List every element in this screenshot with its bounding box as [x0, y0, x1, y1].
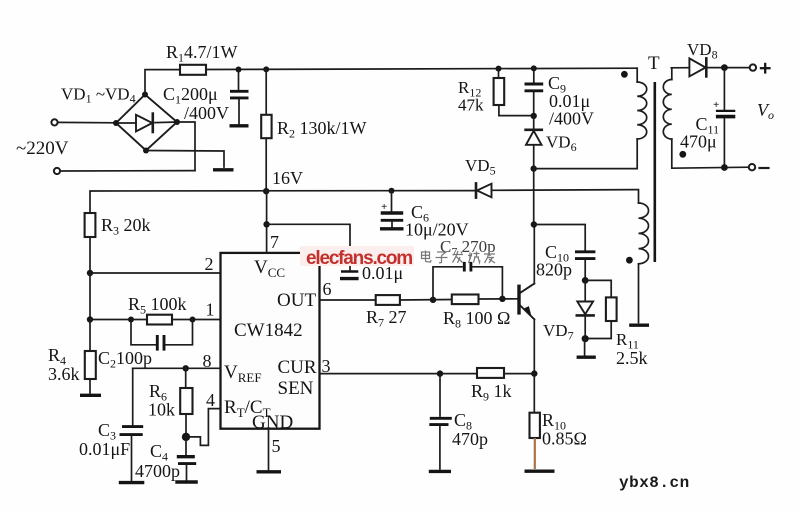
ground bar: C5 — [340, 277, 359, 280]
transformer primary winding — [637, 68, 647, 139]
wire: pin 1 line right part — [172, 319, 221, 321]
node: primary polarity dot — [621, 71, 628, 78]
label plus sign — [760, 63, 771, 74]
svg-text:0.85Ω: 0.85Ω — [542, 429, 587, 449]
svg-text:ybx8.cn: ybx8.cn — [619, 474, 690, 492]
resistor R4 — [85, 320, 96, 394]
capacitor C9 — [525, 68, 544, 115]
node: pin2 junction on left bus — [87, 270, 93, 276]
diode VD7 — [577, 280, 594, 338]
node: aux polarity dot — [626, 257, 633, 264]
ground bar: VD7/R11 — [577, 356, 596, 359]
wire: CUR SEN pin 3 to R9 — [320, 373, 478, 375]
node: R2 tap — [263, 66, 269, 72]
label minus sign — [760, 167, 769, 169]
wire: OUT pin 6 to R7 — [320, 299, 376, 301]
node: C9 top tap — [531, 65, 537, 71]
terminal: AC input bottom — [54, 168, 60, 174]
node: base junction — [499, 296, 505, 302]
svg-text:SEN: SEN — [278, 378, 314, 399]
svg-text:R5 100k: R5 100k — [128, 294, 187, 317]
bridge rectifier VD1~VD4 — [116, 95, 177, 151]
watermark chinese text 电子发烧友 (hand-drawn strokes) — [422, 251, 496, 264]
wire: VD8 to plus terminal — [708, 67, 750, 69]
resistor R9 — [477, 368, 504, 378]
resistor R3 — [85, 213, 96, 273]
svg-text:R7 27: R7 27 — [366, 307, 407, 330]
wire: GND pin 5 — [268, 429, 270, 470]
svg-text:VD7: VD7 — [543, 321, 574, 343]
wire: jog to RT/CT pin 4 — [186, 409, 221, 446]
resistor R5 — [147, 315, 172, 325]
wire: pin 2 line — [90, 272, 221, 274]
node: snubber bottom junction — [531, 113, 537, 119]
ground bar: R4 — [80, 394, 101, 397]
node: C5 tap on VCC wire — [263, 221, 269, 227]
resistor R12 — [494, 69, 534, 116]
op-amp/controller IC U1 CW1842 box — [221, 253, 320, 429]
ground bar: C8 — [429, 470, 451, 473]
svg-text:10k: 10k — [148, 400, 175, 420]
node: collector/C10 junction — [531, 221, 537, 227]
ground bar: C6 — [380, 227, 404, 230]
svg-text:C7 270p: C7 270p — [440, 237, 496, 259]
wire: VD7 node to ground — [584, 339, 586, 355]
wire: primary bottom return — [534, 139, 638, 169]
svg-text:~220V: ~220V — [16, 138, 69, 159]
node: VD7/R11 top junction — [582, 277, 589, 284]
node: C8 tap — [437, 370, 443, 376]
svg-text:R3 20k: R3 20k — [101, 215, 151, 238]
resistor R10 — [530, 374, 540, 469]
svg-text:VD1 ~VD4: VD1 ~VD4 — [61, 85, 136, 106]
diode VD6 — [526, 116, 542, 169]
capacitor C10 branch — [534, 225, 596, 281]
svg-text:R2 130k/1W: R2 130k/1W — [277, 118, 367, 141]
wire: 16V rail right of VD5 to aux winding — [492, 190, 639, 203]
capacitor C8 — [429, 374, 452, 469]
node: bridge left vertex — [113, 120, 119, 126]
node: C11 bottom tap — [721, 164, 728, 171]
svg-text:R9 1k: R9 1k — [471, 381, 512, 404]
terminal: output minus — [749, 164, 755, 170]
node: R6 tap on VREF line — [183, 365, 189, 371]
svg-text:VD6: VD6 — [546, 133, 577, 155]
node: emitter/R9/R10 junction — [531, 370, 537, 376]
capacitor C2 parallel loop — [131, 320, 193, 351]
svg-text:820p: 820p — [536, 260, 572, 280]
wire: R9 to emitter node — [504, 373, 534, 375]
resistor R11 parallel loop — [585, 280, 616, 338]
wire: bridge right vertex down to AC bottom — [177, 122, 195, 171]
node: bridge right vertex — [174, 119, 180, 125]
svg-text:OUT: OUT — [277, 290, 316, 311]
node: C2 left tap — [128, 317, 134, 323]
capacitor C7 parallel loop over R8 — [433, 262, 502, 300]
svg-text:CW1842: CW1842 — [234, 320, 303, 341]
wire: top HV rail — [206, 68, 637, 69]
node: R7/R8/C7 junction — [430, 297, 436, 303]
transformer secondary winding — [663, 68, 672, 139]
svg-text:0.01μF: 0.01μF — [79, 439, 130, 459]
terminal: output plus — [750, 64, 756, 70]
svg-text:6: 6 — [323, 279, 332, 299]
svg-text:Vo: Vo — [757, 100, 774, 122]
terminal: AC input top — [51, 119, 57, 125]
wire: R8 to transistor base — [479, 298, 518, 300]
svg-text:2.5k: 2.5k — [616, 348, 648, 368]
wire: emitter down to current sense — [533, 319, 535, 373]
svg-text:elecfans.com: elecfans.com — [306, 248, 412, 269]
node: R6/C4/pin4 junction — [182, 433, 190, 441]
resistor R1 — [180, 65, 206, 75]
svg-text:VD5: VD5 — [465, 156, 496, 178]
node: C1 tap — [236, 67, 242, 73]
wire: bridge top vertex up to R1 — [145, 70, 180, 95]
svg-text:470p: 470p — [452, 429, 488, 449]
svg-text:R8 100 Ω: R8 100 Ω — [443, 308, 510, 331]
resistor R6 — [180, 368, 192, 433]
transistor Q1 — [517, 284, 534, 320]
node: R5 row junction — [87, 316, 93, 322]
node: R12 top tap — [496, 66, 502, 72]
ground bar: C1 — [230, 124, 249, 127]
svg-text:R14.7/1W: R14.7/1W — [166, 42, 238, 65]
wire: R7 to R8 — [400, 299, 452, 302]
capacitor C11 (electrolytic) — [713, 68, 735, 168]
wire: VCC pin 7 from 16V rail — [266, 191, 268, 253]
resistor R2 — [261, 69, 271, 191]
transformer core — [653, 82, 656, 262]
svg-text:GND: GND — [252, 412, 293, 433]
ground bar: bridge negative — [213, 168, 234, 171]
wire: clamp node down to collector branch — [533, 169, 535, 225]
svg-text:VD8: VD8 — [687, 40, 718, 62]
svg-text:CUR: CUR — [278, 357, 317, 378]
ground bar: pin 5 — [257, 470, 282, 473]
svg-text:47k: 47k — [458, 96, 484, 115]
svg-text:4: 4 — [206, 390, 215, 410]
svg-text:/400V: /400V — [549, 109, 594, 129]
wire: collector up to clamp node — [533, 225, 535, 284]
svg-text:/400V: /400V — [184, 103, 229, 123]
ground bar: C3 — [119, 481, 145, 484]
wire: left bus pin2 to R5 row — [89, 273, 91, 320]
wire: VREF pin 8 line — [133, 367, 221, 369]
svg-text:7: 7 — [270, 232, 279, 252]
watermark background halo — [300, 246, 414, 266]
svg-text:1: 1 — [206, 300, 215, 320]
wire: 16V rail left of VD5 — [90, 191, 475, 213]
node: VD7/R11 bottom junction — [582, 335, 589, 342]
ground bar: C4 — [175, 480, 198, 483]
svg-text:+: + — [381, 201, 387, 213]
capacitor C6 (electrolytic) — [381, 191, 404, 227]
node: C2 right tap — [190, 317, 196, 323]
svg-text:4700p: 4700p — [135, 461, 180, 481]
svg-text:3.6k: 3.6k — [48, 364, 80, 384]
node: C11 top tap — [721, 64, 728, 71]
node: bridge top vertex — [142, 92, 148, 98]
ground bar: aux winding — [629, 324, 649, 327]
svg-text:C2100p: C2100p — [98, 348, 152, 371]
wire: pin 1 line left part — [90, 319, 147, 321]
wire: bridge bottom to ground stub — [146, 151, 224, 168]
capacitor C3 branch — [120, 368, 144, 480]
wire: AC bottom terminal to bridge right leg — [61, 170, 196, 172]
capacitor C5 0.01u branch — [267, 224, 359, 271]
svg-text:2: 2 — [205, 254, 214, 274]
diode VD5 — [476, 183, 492, 197]
svg-text:16V: 16V — [272, 168, 303, 188]
wire: secondary bottom rail — [672, 139, 749, 168]
resistor R8 — [452, 295, 479, 305]
node: 16V rail / R2 junction — [263, 188, 269, 194]
svg-text:5: 5 — [272, 436, 281, 456]
node: bridge bottom vertex — [143, 148, 149, 154]
svg-text:470μ: 470μ — [680, 132, 717, 152]
wire: AC top terminal to bridge left — [58, 121, 116, 123]
resistor R7 — [376, 295, 400, 305]
transformer aux winding — [639, 203, 649, 264]
diode VD8 — [689, 58, 706, 76]
wire: secondary top to VD8 — [671, 67, 689, 69]
capacitor C4 — [177, 437, 196, 480]
node: C6 tap — [389, 188, 395, 194]
wire: aux winding bottom to ground — [638, 264, 640, 323]
svg-text:+: + — [713, 99, 719, 111]
ground bar: R10 — [525, 470, 555, 473]
svg-text:T: T — [648, 53, 660, 74]
node: secondary polarity dot — [679, 151, 686, 158]
capacitor C1 — [230, 70, 249, 125]
node: primary return junction — [531, 165, 537, 171]
